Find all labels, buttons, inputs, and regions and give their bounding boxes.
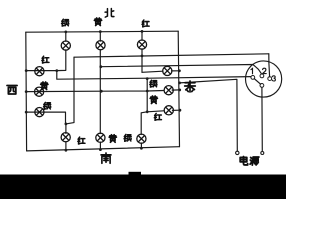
label: yellow (west) bold — [41, 82, 48, 89]
terminal 2 of power supply — [261, 152, 264, 155]
label: green (north) — [62, 19, 69, 26]
pin number 1 — [251, 68, 253, 73]
junction dots on top bus — [64, 30, 143, 33]
wire: top common bus (north side of ring) — [26, 31, 178, 32]
wire: stub node B to lamp S-red — [65, 124, 67, 133]
label: green (east) — [150, 80, 157, 87]
wire: power feed from ring to terminal 1 — [180, 79, 238, 151]
lamp S-red — [61, 133, 70, 142]
wire: north red column down to east green row — [141, 49, 143, 72]
wire: bus A right end drop into switch contact 3 — [268, 54, 271, 77]
lamp N-green — [61, 41, 70, 50]
lamp W-red — [35, 67, 44, 76]
lamp S-green — [137, 134, 146, 143]
wire: west red row from ring through lamp W-red to node A — [26, 70, 57, 72]
lamp E-yellow E2 — [164, 86, 173, 95]
wire: stub from top bus to lamp N-green — [65, 32, 67, 41]
junction dot node A on west red row — [55, 69, 58, 72]
label: yellow (south) bold — [109, 135, 116, 142]
junction dot link at west yellow row crossing — [146, 90, 149, 93]
junction dot link at east red row — [146, 110, 149, 113]
label: green (west) — [44, 102, 51, 109]
label: green (south) — [124, 134, 131, 141]
lamp W-yellow — [35, 87, 44, 96]
junction dot node B above lamp S-red — [65, 123, 68, 126]
junction dots on left ring bus — [25, 69, 28, 113]
wire: stub lamp S-green to bottom bus — [140, 143, 142, 148]
label: red (east) — [154, 113, 161, 120]
junction dot bus A at north red column — [141, 55, 144, 58]
label: yellow (east) bold — [150, 96, 157, 103]
wire: east green row through lamp E1 to ring — [142, 71, 179, 73]
junction dots on right ring bus — [178, 69, 181, 111]
wire: north yellow column down to lamp S-yellow — [99, 50, 101, 134]
label: east direction 东 — [185, 81, 196, 92]
label: west direction 西 — [7, 85, 17, 94]
wire: bottom common bus (south side of ring) — [27, 147, 180, 151]
terminal 1 of power supply — [236, 151, 239, 154]
black bar at bottom of scan — [0, 175, 286, 200]
switch contact 3 — [268, 77, 272, 81]
wire: stub from top bus to lamp N-yellow — [99, 32, 101, 41]
wire: lamp S-green elbow up to east red row — [141, 110, 180, 134]
wire: switch wiper pivot down to terminal 2 — [261, 87, 263, 151]
wire: stub lamp S-red to bottom bus — [65, 142, 67, 150]
pin number 3 — [272, 76, 275, 81]
label: red (south) — [78, 137, 85, 144]
junction dot yellow column at west yellow row — [100, 90, 103, 93]
switch wiper pivot — [260, 84, 264, 88]
wire: vertical link from bus C down to east red row — [146, 79, 148, 112]
pin number 2 — [263, 68, 267, 73]
switch contact 2 — [260, 74, 264, 78]
wire: lamp N-green tail down and left to node W-red row — [57, 50, 66, 71]
label: south direction 南 — [101, 153, 111, 163]
wire: west green row from ring to elbow — [26, 112, 65, 124]
wire: bus A vertical down to elbow joining lamp S-red — [66, 57, 74, 124]
wire: west yellow row from ring through lamps to east ring — [26, 90, 180, 92]
label: red (north) — [142, 20, 149, 27]
wire: bus C phase-3 from node A down then right to switch contact 1 — [57, 71, 251, 80]
lamp N-red — [137, 40, 146, 49]
wire: left common bus (west side of ring) — [25, 32, 28, 151]
lamp E-green E1 — [163, 66, 172, 75]
label: red (west) — [42, 56, 49, 63]
lamp W-green — [35, 108, 44, 117]
lamp N-yellow — [96, 41, 105, 50]
wire: stub from top bus to lamp N-red — [141, 31, 143, 40]
wiper arm of rotary switch — [254, 79, 260, 85]
junction dot bus B start on yellow column — [99, 65, 102, 68]
junction dots on bottom bus — [65, 147, 143, 152]
label: power supply 电源 — [240, 156, 247, 164]
lamp E-red E3 — [164, 106, 173, 115]
switch contact 1 — [251, 76, 255, 80]
caption fragment above black bar — [129, 172, 142, 176]
wire: right common bus (east side of ring) — [178, 31, 179, 147]
label: yellow (north) bold — [94, 18, 101, 25]
rotary switch body U1 — [246, 61, 282, 97]
lamp S-yellow — [96, 133, 105, 142]
wire: bus B phase-yellow from N-yellow line to switch contact 2 — [101, 65, 262, 74]
junction dot link at bus C — [146, 77, 149, 80]
wire: bus A phase-2 horizontal — [74, 54, 269, 57]
wire: stub lamp S-yellow to bottom bus — [99, 142, 101, 150]
label: north direction 北 — [105, 8, 114, 17]
